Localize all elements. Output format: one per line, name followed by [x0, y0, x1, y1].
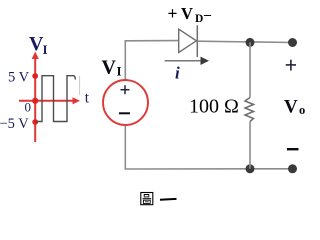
label +VD- — [168, 4, 213, 26]
svg-text:V: V — [181, 4, 193, 23]
junction node dot bottom left — [246, 164, 255, 173]
waveform y-axis (red) — [32, 52, 39, 143]
svg-text:5 V: 5 V — [8, 69, 30, 85]
waveform t-axis (red) — [19, 97, 80, 104]
wire resistor branch top — [249, 42, 251, 97]
svg-text:–: – — [203, 8, 212, 23]
caption glyph yi (one) — [160, 198, 177, 201]
svg-text:−5 V: −5 V — [0, 116, 29, 132]
wire left vertical top (source to top rail) — [124, 41, 126, 80]
node marker dot -5V — [32, 119, 38, 125]
svg-text:o: o — [299, 103, 305, 117]
svg-text:0: 0 — [25, 99, 32, 114]
label - of Vo — [287, 148, 299, 150]
svg-text:D: D — [195, 13, 203, 25]
svg-text:I: I — [43, 42, 48, 57]
junction node dot bottom right — [288, 164, 297, 173]
resistor R1 100 ohm zigzag — [245, 98, 254, 122]
svg-text:V: V — [284, 97, 298, 118]
current arrow i — [165, 60, 202, 62]
label + of Vo — [286, 60, 296, 71]
svg-text:100 Ω: 100 Ω — [189, 96, 239, 118]
square wave VI — [36, 76, 75, 122]
voltage source VS circle — [103, 80, 148, 125]
caption glyph tu (figure) — [141, 193, 153, 205]
node marker dot origin — [32, 98, 38, 104]
node marker dot +5V — [32, 73, 38, 79]
node VI waveform axis label V_I — [29, 33, 48, 57]
wire bottom rail — [125, 168, 293, 170]
wire resistor branch bottom — [249, 122, 251, 169]
svg-text:i: i — [175, 64, 180, 83]
diode D1 triangle — [179, 29, 197, 52]
diode D1 cathode bar — [196, 25, 198, 57]
junction node dot top right — [288, 38, 297, 47]
source minus sign — [119, 112, 130, 114]
svg-text:I: I — [117, 64, 122, 79]
wire left vertical bottom (source to bottom rail) — [124, 126, 126, 170]
label Vo — [284, 97, 305, 118]
source plus sign — [121, 85, 130, 94]
svg-text:t: t — [85, 90, 90, 107]
junction node dot top left — [246, 38, 255, 47]
wave faint continuation — [79, 76, 81, 95]
wire top rail right segment — [197, 41, 292, 42]
label VI at source — [102, 57, 122, 79]
svg-text:+: + — [168, 4, 178, 24]
wire top rail left segment — [125, 40, 179, 42]
svg-text:V: V — [102, 57, 117, 79]
